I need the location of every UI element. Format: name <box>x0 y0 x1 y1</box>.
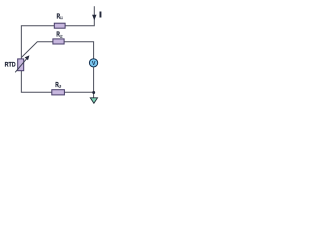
svg-text:V: V <box>92 61 96 67</box>
current direction arrowhead <box>92 15 96 21</box>
svg-text:L2: L2 <box>60 34 62 38</box>
wire: voltmeter bottom to ground <box>93 67 95 97</box>
svg-text:RTD: RTD <box>5 61 16 68</box>
resistor RL1 <box>54 23 65 28</box>
voltmeter V <box>89 59 97 67</box>
resistor RL3 <box>52 90 65 95</box>
ground <box>90 98 97 104</box>
RTD arrow <box>15 59 27 73</box>
wire: sense lead diagonal from RTD top, middle run, down to voltmeter <box>22 42 94 59</box>
svg-text:L1: L1 <box>60 16 62 20</box>
label I <box>100 12 102 18</box>
RTD body <box>18 59 24 71</box>
svg-text:L3: L3 <box>59 85 61 89</box>
resistor RL2 <box>53 39 64 44</box>
wire: current source lead, top run, left side, bottom run <box>21 6 94 92</box>
junction node <box>92 91 95 94</box>
